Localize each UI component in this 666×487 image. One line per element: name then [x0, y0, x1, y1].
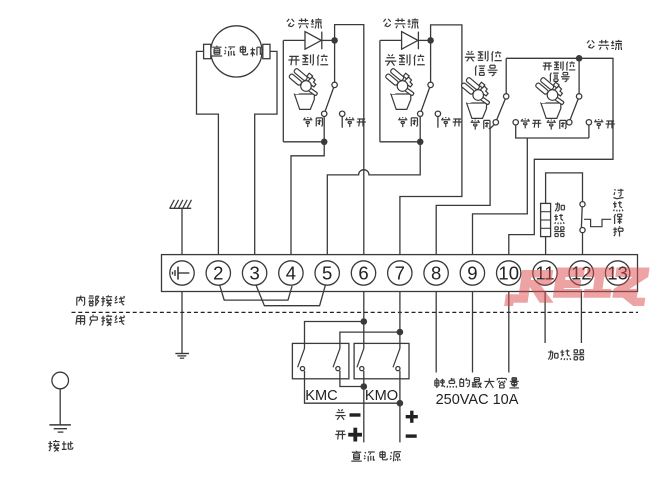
separation dashed line	[72, 311, 639, 313]
terminal 13	[605, 261, 629, 285]
svg-text:7: 7	[395, 262, 405, 283]
terminal 9 stub wire	[472, 292, 474, 373]
cam icon box2	[385, 68, 414, 109]
terminal 10 stub wire	[508, 292, 510, 373]
terminal 10	[497, 261, 521, 285]
limit switch box2 left edge wire	[379, 40, 381, 141]
SW1 NO stub	[341, 117, 343, 128]
thermal switch blade	[580, 207, 583, 228]
terminal 12 stub wire	[580, 292, 582, 344]
terminal 5	[315, 261, 339, 285]
common wire for signal switches	[506, 58, 613, 254]
terminal 1 (ground)	[170, 261, 194, 285]
switch SW1 pivot	[332, 82, 337, 87]
watermark REIZ	[504, 268, 649, 307]
svg-text:2: 2	[213, 262, 223, 283]
switch SW1 NC contact	[322, 111, 327, 116]
switch SW1 NO contact	[340, 111, 345, 116]
wire heater to terminal 11	[545, 237, 547, 255]
label 信号 (SW3)	[475, 65, 497, 76]
wire SW3/SW4 NO bus	[516, 125, 589, 138]
label 常闭 SW4	[547, 119, 566, 129]
label 常开 SW3	[521, 118, 542, 128]
wire SW2 NC down to box2 bottom	[419, 117, 421, 142]
SW2 NO stub	[437, 117, 439, 128]
terminal 7	[388, 261, 412, 285]
wire common to SW3 pivot	[505, 58, 507, 93]
wire box1 junction down to pivot	[334, 40, 336, 82]
wire NO bus to terminal 9	[473, 138, 528, 255]
switch SW4 NO contact	[586, 120, 591, 125]
node T6 branch	[361, 318, 368, 325]
node join KMC2/KMO1	[361, 383, 368, 390]
plus (close, right)	[406, 411, 418, 423]
wire terminal7 down to KMO sw2	[399, 292, 401, 349]
ground electrode circle	[52, 372, 69, 389]
svg-text:9: 9	[467, 262, 477, 283]
wire box1 junction up-over to terminal 6	[335, 25, 364, 255]
earth symbol below terminal 1	[175, 354, 189, 359]
wire SW1 NC down to box1 bottom	[323, 117, 325, 142]
switch SW2 pivot	[428, 82, 433, 87]
node: box1 bottom junction	[321, 139, 328, 146]
node: box2 bottom junction	[417, 139, 424, 146]
switch SW4 pivot	[576, 94, 581, 99]
diode D2	[402, 32, 431, 50]
box1 top wire to diode	[283, 39, 305, 41]
terminal 4	[279, 261, 303, 285]
motor M1 left brush	[204, 44, 211, 58]
contactor KMC box	[292, 343, 349, 378]
label 开	[335, 431, 345, 439]
node: box2 common junction	[427, 37, 434, 44]
switch SW3 pivot	[504, 94, 509, 99]
switch SW3 NO contact	[513, 120, 518, 125]
label 关到位 (signal)	[465, 51, 502, 62]
svg-text:10: 10	[498, 262, 519, 283]
terminal 9	[460, 261, 484, 285]
wire box2 junction up-over to terminal 7	[400, 25, 462, 255]
label 常闭 box2	[398, 117, 417, 127]
switch SW2 NO contact	[435, 111, 440, 116]
wire box2 NC to terminal 5 (with hop over T6 wire)	[327, 142, 420, 255]
wire terminal6 down to KMO sw1	[363, 292, 365, 349]
label 加热器 vertical	[554, 202, 565, 236]
box1 bottom edge wire	[283, 141, 324, 143]
wire KMC1 down and right	[305, 371, 400, 404]
overheat pointer zigzag	[584, 219, 611, 226]
terminal 2	[206, 261, 230, 285]
cam icon SW3	[461, 77, 490, 118]
KMC contact 2	[333, 349, 340, 371]
switch SW3 blade	[497, 99, 506, 120]
KMO contact 1	[357, 349, 364, 371]
svg-text:KMO: KMO	[365, 388, 398, 404]
wire branch to KMC sw1	[305, 322, 364, 349]
heater loop top wire	[546, 173, 583, 204]
KMC contact 1	[298, 349, 305, 371]
label 常开 box2	[441, 117, 462, 127]
label 常开 box1	[345, 117, 366, 127]
node join KMC1/KMO2	[397, 400, 404, 407]
label 内部接线	[77, 295, 125, 306]
wire common to SW4 pivot	[578, 58, 580, 94]
label 加热器 horizontal	[548, 349, 584, 360]
svg-text:250VAC 10A: 250VAC 10A	[436, 392, 519, 408]
switch SW2 blade	[421, 87, 430, 111]
cam icon SW4	[535, 77, 564, 118]
node T7 branch	[397, 329, 404, 336]
wire SW3 NC to terminal 8	[436, 125, 494, 255]
terminal 12	[569, 261, 593, 285]
minus (close)	[350, 413, 361, 416]
KMO contact 2	[393, 349, 400, 371]
terminal 11 stub wire	[544, 292, 546, 344]
node: box1 common junction	[331, 37, 338, 44]
svg-text:6: 6	[358, 262, 368, 283]
motor M1 label 直流电机	[212, 46, 262, 57]
label 常闭 box1	[303, 117, 322, 127]
wire box1 NC to terminal 4	[291, 142, 324, 255]
box2 top wire to diode	[380, 39, 402, 41]
limit switch box1 left edge wire	[282, 40, 284, 141]
terminal 3	[242, 261, 266, 285]
terminal 6	[351, 261, 375, 285]
label 直流电源	[351, 451, 401, 462]
motor M1 right brush	[263, 44, 270, 58]
chassis ground symbol	[169, 200, 191, 209]
motor M1 circle	[211, 26, 262, 77]
svg-text:8: 8	[431, 262, 441, 283]
label 公共端 box1	[287, 18, 322, 28]
terminal strip body	[162, 255, 638, 292]
label 开到位	[288, 54, 328, 65]
terminal 8	[424, 261, 448, 285]
switch SW4 NC contact (unconnected)	[567, 120, 572, 125]
label 用户接线	[76, 315, 125, 326]
wire branch to KMC sw2	[340, 332, 400, 348]
node: common junction above SW4	[576, 55, 583, 62]
diode D1	[305, 32, 335, 50]
label 开到位 (signal)	[543, 61, 576, 70]
wire terminal1 to earth	[181, 292, 183, 354]
wire box2 junction down to pivot	[430, 40, 432, 82]
terminal 8 stub wire	[435, 292, 437, 373]
thermal switch top contact	[580, 202, 585, 207]
box2 bottom edge wire	[380, 141, 420, 143]
label 公共端 top right	[587, 40, 622, 50]
jumper terminal3 to terminal5	[256, 285, 325, 306]
label 过热保护 vertical	[613, 189, 624, 237]
wire KMO2 down (DC line B)	[399, 371, 401, 443]
wire motor left to terminal 2	[197, 51, 219, 254]
heater resistor R1	[541, 203, 551, 236]
label 信号 (SW4)	[550, 72, 570, 81]
contactor KMO box	[354, 343, 409, 378]
plus (open)	[348, 428, 362, 442]
svg-text:5: 5	[322, 262, 332, 283]
switch SW3 NC contact	[493, 120, 498, 125]
svg-text:3: 3	[249, 262, 259, 283]
label 常闭 SW3	[471, 119, 490, 129]
wire thermal switch to terminal 12	[582, 233, 584, 255]
label 触点的最大容量	[435, 377, 519, 388]
wire KMO1 down (DC line A)	[363, 371, 365, 443]
switch SW1 blade	[325, 87, 334, 111]
minus (open, right)	[406, 434, 417, 437]
wire: terminal1 to chassis ground	[181, 208, 183, 254]
label 关	[335, 409, 345, 419]
label 接地	[48, 440, 73, 452]
switch SW2 NC contact	[418, 111, 423, 116]
wire KMC2 down and right	[340, 371, 364, 387]
terminal 11	[533, 261, 557, 285]
thermal switch bottom contact	[580, 228, 585, 233]
wire motor right to terminal 3	[255, 51, 277, 254]
label 关到位	[385, 54, 425, 65]
ground electrode wire	[59, 389, 61, 425]
label 常开 SW4	[594, 119, 615, 129]
svg-text:4: 4	[286, 262, 296, 283]
switch SW4 blade	[570, 99, 578, 120]
earth symbol bottom left	[49, 425, 71, 432]
label 公共端 box2	[383, 18, 418, 28]
jumper terminal2 to terminal4	[220, 285, 293, 301]
svg-text:KMC: KMC	[305, 388, 337, 404]
cam icon box1	[288, 68, 317, 109]
SW4 NO stub to bus	[588, 125, 590, 138]
